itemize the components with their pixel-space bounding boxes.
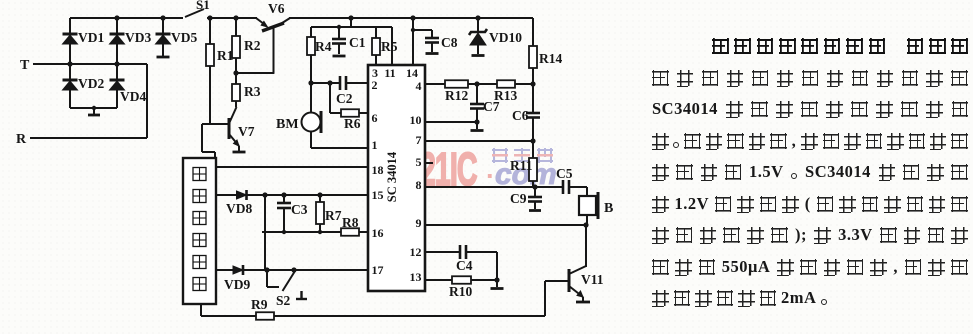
IC text SC 34014 [385,151,399,202]
ground bar below VD5 [157,56,170,59]
dial IC box (dialer) [183,158,216,304]
capacitor C3 [277,195,308,232]
wire supply bus below rail [311,18,392,27]
svg-text:VD9: VD9 [224,277,250,292]
svg-text:R: R [16,132,27,147]
wire VD3 node to R corner [146,64,148,138]
resistor R2 [232,18,261,73]
wire bottom rail up to V11 base [545,281,569,316]
svg-text:C6: C6 [512,108,529,123]
wire R1 node down to dial IC box [202,124,215,158]
op-amp U1 IC SC34014 body [368,65,425,291]
ground bar below C1 [333,55,346,58]
svg-text:12: 12 [410,245,422,259]
node junction VD8 row / R7 [317,192,322,197]
node junction C2/R6 tap [327,80,332,85]
wire C4 to R10 node [496,252,498,280]
receiver B [579,187,613,219]
ground bar below C9 [529,209,541,212]
wire BM bottom to pin1 [311,132,368,149]
svg-text:C2: C2 [336,91,353,106]
svg-text:VD2: VD2 [78,76,104,91]
wire pin14 riser [412,18,414,65]
node junction R7 bottom [318,230,322,234]
wire C3/R7 bottom row to R8 [262,231,341,233]
resistor R11 [510,141,537,187]
svg-text:V6: V6 [268,1,285,16]
node junction VD9 row / S2 left [264,267,269,272]
svg-text:7: 7 [416,133,422,147]
pin number 12 [410,245,422,259]
node junction R4/C2/BM [308,80,313,85]
svg-text:B: B [604,201,613,216]
ground stub below C4/R10 node [491,280,504,289]
wire pin11 drop from bus [391,27,393,65]
pin number 18 [372,163,384,177]
node junction VD1/VD2/T [67,61,72,66]
ground bar below C8 [426,52,439,55]
node junction R12/R13/C7 [474,81,479,86]
node junction VD9 row / S2 right [291,267,296,272]
node junction C4/R10 [494,277,499,282]
svg-text:S1: S1 [196,0,210,12]
wire VD8 row to pin15 [216,194,368,196]
pin number 3 [372,66,378,80]
pin number 13 [410,270,422,284]
terminal T [20,58,70,73]
diode VD1 [63,18,105,64]
pin number 9 [416,216,422,230]
svg-text:R5: R5 [381,39,398,54]
svg-text:VD3: VD3 [125,30,151,45]
node junction C3 bottom [282,230,286,234]
svg-text:C5: C5 [556,166,573,181]
node junction B/V11 collector/pin9 [583,222,588,227]
diode VD5 [156,15,198,56]
pin number 16 [372,226,384,240]
node junction C8 tap [411,28,415,32]
ground stub below bridge [88,106,100,115]
transistor V11 [569,266,604,297]
diode VD4 [110,64,147,108]
svg-text:C7: C7 [483,99,500,114]
terminal R [16,132,147,147]
resistor R6 [341,109,368,131]
ground stub below C7 node [471,122,484,131]
svg-text:11: 11 [384,66,395,80]
svg-text:VD1: VD1 [78,30,104,45]
svg-text:R11: R11 [510,158,533,173]
svg-text:6: 6 [372,111,378,125]
svg-text:18: 18 [372,163,384,177]
svg-text:C4: C4 [456,258,473,273]
pin number 8 [416,178,422,192]
svg-text:R6: R6 [344,116,361,131]
capacitor C2 [336,76,368,106]
wire pin9 row [425,224,587,226]
wire VD9 row to pin17 [216,269,368,271]
node junction C1-feed on rail [348,15,353,20]
svg-text:R2: R2 [244,38,261,53]
wire left vertical rail corner above VD1 [69,18,71,28]
diode VD9 [224,265,250,292]
wire pin7 row [425,140,533,142]
node junction R1-top on rail [207,15,212,20]
capacitor C4 [456,245,497,273]
pin number 7 [416,133,422,147]
svg-text:C8: C8 [441,35,458,50]
capacitor C5 [556,166,587,194]
node junction VD10 on rail [475,15,480,20]
wire pin13 row [425,279,497,281]
svg-text:8: 8 [416,178,422,192]
capacitor C6 [512,84,540,141]
node junction pin4/R14/C6 [530,81,535,86]
ground bar V11 emitter [576,297,590,302]
capacitor C8 [413,30,458,52]
svg-text:C1: C1 [349,35,366,50]
wire pin4 row [425,83,533,85]
node junction C6/R11/pin7 [530,138,535,143]
pin number 6 [372,111,378,125]
switch S2 [267,270,307,308]
wire top rail left segment (bridge to S1) [70,17,183,19]
node junction VD3/VD4 [114,61,119,66]
svg-text:R12: R12 [445,88,468,103]
zener diode VD10 [469,18,522,54]
svg-text:R9: R9 [251,297,268,312]
node junction pin14 on rail [410,15,415,20]
svg-text:1: 1 [372,138,378,152]
dial IC vertical label boxes [193,168,206,291]
diode VD2 [63,64,105,108]
resistor R13 [494,80,517,103]
wire pin8 row [425,186,563,188]
watermark 21IC [420,142,477,196]
svg-text:C9: C9 [510,191,527,206]
svg-text:BM: BM [276,117,299,132]
wire B bottom to pin9 row [586,215,588,225]
pin number 15 [372,188,384,202]
node junction VD8 row / C3 [281,192,286,197]
svg-text:VD10: VD10 [489,30,522,45]
svg-text:9: 9 [416,216,422,230]
wire V7 base from R1 [202,123,229,125]
wire bridge bottom [70,107,117,109]
wire bottom rail [201,315,545,317]
resistor R8 [341,215,368,236]
resistor R5 [372,27,398,65]
wire T-line to bridge mid nodes [70,63,147,65]
svg-text:VD4: VD4 [120,89,146,104]
svg-text:16: 16 [372,226,384,240]
resistor R10 [449,276,472,299]
transistor V7 [229,107,255,146]
svg-text:R3: R3 [244,84,261,99]
svg-text:T: T [20,58,30,73]
svg-text:S2: S2 [276,293,291,308]
svg-text:VD5: VD5 [171,30,197,45]
wire C2 node down to R6 [330,83,341,113]
resistor R12 [445,80,468,103]
wire V11 collector riser [585,225,587,267]
node junction C7/pin10 [474,119,479,124]
svg-text:V11: V11 [581,272,604,287]
pin number 4 [416,79,422,93]
node junction R2-top on rail [233,15,238,20]
wire top rail middle segment (S1 to V6) [207,17,257,19]
pin number 5 [416,155,422,169]
capacitor C7 [470,84,500,122]
svg-text:R14: R14 [539,51,562,66]
svg-text:SC 34014: SC 34014 [385,151,399,202]
svg-text:C3: C3 [291,202,308,217]
pin number 17 [372,263,384,277]
svg-text:14: 14 [406,66,418,80]
switch S1 [185,0,210,17]
capacitor C9 [510,187,542,209]
wire BM top lead [310,83,312,113]
diode VD8 [226,190,252,216]
resistor R4 [307,27,332,83]
resistor R7 [316,195,342,232]
pin number 11 [384,66,395,80]
svg-text:2: 2 [372,78,378,92]
wire pin12 row to C4 [425,251,460,253]
node junction R2/R3/V6-base [233,70,238,75]
svg-text:15: 15 [372,188,384,202]
resistor R1 [206,18,234,124]
wire V6 base to R2-R3 node [236,72,274,74]
resistor R14 [529,18,562,84]
wire top rail right segment (V6 collector rail to R14) [289,17,533,19]
wire pin18 from dial box [216,166,368,168]
resistor R3 [232,73,261,107]
transistor V6 [256,1,290,73]
pin number 2 [372,78,378,92]
microphone BM [276,111,321,133]
pin number 14 [406,66,418,80]
svg-text:V7: V7 [238,124,255,139]
svg-text:R4: R4 [315,39,332,54]
resistor R9 [251,297,274,320]
svg-text:R8: R8 [342,215,359,230]
svg-text:VD8: VD8 [226,201,252,216]
ground bar below VD10 [472,54,485,57]
wire dial box bottom to ground rail [200,304,202,316]
wire pin10 row [425,121,477,123]
wire pin5 stub [425,162,433,164]
svg-text:17: 17 [372,263,384,277]
node junction R11/C9/pin8 [532,184,537,189]
diode VD3 [110,15,152,64]
svg-text:13: 13 [410,270,422,284]
svg-text:10: 10 [410,113,422,127]
svg-text:R7: R7 [325,208,342,223]
wire R4 node to C2 node [311,82,340,84]
wire vertical VD8-row to VD9-row [264,195,266,270]
capacitor C1 [332,25,366,54]
svg-text:5: 5 [416,155,422,169]
svg-text:R10: R10 [449,284,472,299]
pin number 1 [372,138,378,152]
svg-text:4: 4 [416,79,422,93]
node junction VD8 row / S2 drop [262,192,267,197]
pin number 10 [410,113,422,127]
ground bar V7 emitter [233,146,246,152]
